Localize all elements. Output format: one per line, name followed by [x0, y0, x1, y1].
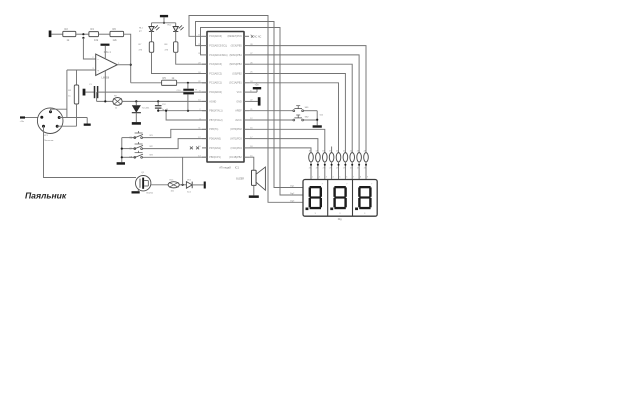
pin 22 (right row 8): [244, 100, 249, 102]
resistor R18: [323, 153, 328, 162]
wire (segment line f): [249, 129, 325, 152]
button SB2: [249, 119, 293, 121]
pin 9 (left row 7): [202, 91, 207, 93]
ground (switch common): [117, 162, 125, 165]
wire: [331, 162, 333, 180]
svg-text:(SS)PB2: (SS)PB2: [232, 72, 242, 75]
pin 27 (right row 3): [244, 54, 249, 56]
wire: [365, 162, 367, 180]
svg-text:GND: GND: [236, 100, 242, 103]
svg-text:3: 3: [326, 177, 327, 179]
node A (junction): [82, 33, 84, 35]
wire (IC pin 15 to buzzer): [249, 157, 254, 170]
pin 10 (left row 8): [202, 100, 207, 102]
wire (segment line h): [249, 148, 311, 153]
svg-text:PD5(T1): PD5(T1): [209, 128, 218, 131]
resistor R23: [357, 153, 362, 162]
svg-text:PC4(ADC4/SDA): PC4(ADC4/SDA): [209, 54, 227, 57]
LED HL1: [151, 23, 153, 27]
wire (S1 to IC pin 11): [143, 129, 208, 137]
wire to IC pin 5: [152, 52, 208, 73]
wire: [187, 94, 189, 110]
ground (TL431): [132, 122, 141, 125]
svg-text:5: 5: [339, 177, 340, 179]
svg-text:Паяльник: Паяльник: [44, 140, 53, 142]
pin 13 NC crosses (left): [190, 147, 193, 150]
svg-text:271: 271: [336, 168, 339, 170]
svg-text:7: 7: [346, 183, 347, 185]
svg-text:PC6(ADC6): PC6(ADC6): [209, 35, 222, 38]
pin 11 (left row 11): [202, 128, 207, 130]
wire (non-inverting input): [67, 69, 96, 71]
svg-text:3: 3: [339, 213, 340, 215]
svg-text:3: 3: [315, 213, 316, 215]
wire (S4 to IC pin 12): [143, 139, 208, 149]
wire: [324, 162, 326, 180]
wire (segment line e): [249, 83, 339, 153]
svg-text:PD7(AIN1): PD7(AIN1): [209, 147, 221, 150]
svg-text:R5: R5: [163, 76, 167, 80]
svg-text:BUZ11: BUZ11: [147, 193, 154, 195]
wire: [253, 185, 255, 195]
terminal X1 (thermocouple input): [49, 31, 52, 38]
pin 12 (right row 10): [244, 119, 249, 121]
svg-text:AGND: AGND: [209, 100, 216, 103]
resistor R8: [175, 32, 177, 42]
wire (top pin to +input column): [51, 109, 67, 112]
svg-text:R4: R4: [91, 27, 95, 31]
wire Dig3 (pin 20 over top to display): [201, 28, 304, 196]
svg-text:PC1(ADC1): PC1(ADC1): [209, 82, 222, 85]
ground (buttons): [313, 125, 322, 127]
digit 3 segments: [359, 186, 370, 188]
pin 12 (left row 12): [202, 138, 207, 140]
buzzer BA1: [252, 170, 257, 185]
svg-text:AVCC: AVCC: [235, 119, 242, 122]
wire: [192, 184, 204, 186]
wire (switch common): [121, 138, 123, 163]
resistor R16: [309, 153, 314, 162]
wire: [76, 33, 89, 35]
svg-text:TLC431: TLC431: [142, 108, 151, 110]
svg-text:7: 7: [353, 177, 354, 179]
wire: [122, 100, 207, 102]
resistor R17: [316, 153, 321, 162]
node F: [187, 82, 189, 84]
op-amp DA1.1: [96, 54, 118, 76]
wire: [151, 184, 168, 186]
switch S4: [122, 148, 134, 150]
svg-text:17: 17: [316, 151, 318, 153]
resistor R15: [168, 182, 179, 188]
pin 15 (right row 14): [244, 156, 249, 158]
display HG1 (3-digit 7-segment): [303, 180, 377, 217]
svg-text:BUZER: BUZER: [236, 178, 244, 180]
digit 1 decimal point: [306, 208, 309, 211]
ground (buzzer): [249, 195, 259, 198]
wire (right pin to ground): [59, 117, 87, 119]
resistor R22: [350, 153, 355, 162]
resistor R9: [113, 98, 122, 106]
wire (segment line d): [249, 74, 345, 153]
transistor Q1 (MOSFET): [136, 176, 151, 191]
resistor R24: [364, 153, 369, 162]
pin 21 (right row 9): [244, 110, 249, 112]
terminal +5V1: [204, 182, 206, 189]
svg-text:2: 2: [319, 177, 320, 179]
wire: [179, 184, 186, 186]
node D: [135, 100, 137, 102]
svg-text:(SCK)PB5: (SCK)PB5: [231, 45, 243, 48]
ground (connector): [86, 118, 88, 124]
ground (source of Q1): [137, 190, 139, 192]
node H (gate drive): [182, 184, 184, 186]
wire: [124, 34, 131, 83]
wire (IC pin 14 to gate node): [182, 157, 184, 185]
svg-text:23: 23: [357, 151, 359, 153]
wire: [152, 22, 176, 24]
svg-text:(MOSI)PB3: (MOSI)PB3: [229, 63, 242, 66]
microcontroller IC1 ATmega8: [207, 32, 244, 163]
svg-text:IC1: IC1: [235, 165, 240, 169]
wire (heater line to transistor): [44, 126, 137, 177]
svg-text:AREF: AREF: [235, 110, 242, 113]
wire: [310, 162, 312, 180]
pin 24 (left row 5): [202, 73, 207, 75]
svg-text:10k: 10k: [94, 38, 99, 42]
wire (+5v rail to IC pin 8): [96, 92, 98, 101]
wire (vertical to op-amp + input): [66, 70, 68, 118]
svg-text:7: 7: [371, 183, 372, 185]
svg-text:PB0(ICP1): PB0(ICP1): [209, 156, 221, 159]
svg-text:R6: R6: [113, 27, 117, 31]
svg-text:NC NC: NC NC: [254, 36, 262, 38]
svg-text:grn: grn: [139, 31, 142, 33]
pin 2 (left row 9): [202, 110, 207, 112]
svg-text:(INT0)PD2: (INT0)PD2: [230, 128, 242, 131]
svg-text:271: 271: [350, 168, 353, 170]
pin 17 (right row 12): [244, 138, 249, 140]
pin 18 (right row 13): [244, 147, 249, 149]
svg-text:271: 271: [309, 168, 312, 170]
wire to IC pin 4: [176, 52, 207, 64]
wire: [76, 104, 78, 126]
wire: [358, 162, 360, 180]
pin 24 (right row 6): [244, 82, 249, 84]
wire (left pin 10 step): [166, 111, 207, 120]
digit 2 decimal point: [330, 208, 333, 211]
pin 28 (right row 2): [244, 45, 249, 47]
svg-text:271: 271: [329, 168, 332, 170]
svg-text:PC5(ADC5/SCL): PC5(ADC5/SCL): [209, 45, 227, 48]
wire: [344, 162, 346, 180]
wire: [135, 113, 137, 122]
svg-text:8: 8: [360, 177, 361, 179]
svg-text:PC3(ADC3): PC3(ADC3): [209, 63, 222, 66]
svg-text:16: 16: [309, 151, 311, 153]
svg-text:Dig: Dig: [338, 218, 342, 221]
capacitor C12: [157, 101, 159, 105]
svg-text:22: 22: [350, 151, 352, 153]
connector XP1 (iron plug): [37, 108, 63, 134]
resistor R1: [76, 70, 78, 85]
wire (op-amp output): [117, 64, 130, 66]
svg-text:4: 4: [333, 177, 334, 179]
switch S1: [122, 137, 134, 139]
pin 13 (left row 13): [202, 147, 207, 149]
svg-text:3: 3: [364, 213, 365, 215]
wire (S5 to IC pin 14): [143, 156, 208, 158]
capacitor C1: [94, 86, 96, 98]
resistor R2: [63, 31, 76, 36]
V+ supply bar of op-amp: [101, 44, 110, 46]
pin 25 (right row 5): [244, 73, 249, 75]
svg-text:(OC1A)PB1: (OC1A)PB1: [229, 82, 242, 85]
svg-text:(XCK)PD4: (XCK)PD4: [231, 147, 243, 150]
terminal +24v: [20, 116, 25, 118]
pin 19 (left row 1): [202, 35, 207, 37]
node C: [104, 100, 106, 102]
node B (op-amp output junction): [130, 64, 132, 66]
wire: [25, 117, 38, 119]
svg-text:PB7(XTAL2): PB7(XTAL2): [209, 119, 222, 122]
terminal (common): [83, 89, 86, 96]
svg-text:PB6(XTAL1): PB6(XTAL1): [209, 110, 222, 113]
wire (V- stem of op-amp down to ground rail): [104, 71, 106, 102]
resistor R5: [162, 80, 177, 85]
svg-text:ATmega8: ATmega8: [219, 165, 231, 169]
wire (button common): [316, 111, 318, 126]
svg-text:271: 271: [364, 168, 367, 170]
svg-text:PC2(ADC2): PC2(ADC2): [209, 72, 222, 75]
wire with resistor R5 to IC pin 6: [131, 82, 162, 84]
wire (bottom-right pin to R1): [57, 125, 76, 127]
wire to IC pin 7: [98, 91, 207, 93]
wire: [99, 33, 111, 35]
wire: [85, 91, 94, 93]
voltage reference VD3 TL431: [135, 101, 137, 105]
wire (segment line a): [249, 46, 366, 153]
wire (segment line g): [249, 139, 318, 153]
resistor R4: [89, 32, 99, 37]
svg-text:7: 7: [322, 183, 323, 185]
svg-text:(RESET)PC6: (RESET)PC6: [227, 35, 242, 38]
digit 3 decimal point: [355, 208, 358, 211]
wire: [338, 162, 340, 180]
wire: [317, 162, 319, 180]
wire: [351, 162, 353, 180]
pin 8 (right row 7): [244, 91, 249, 93]
diode VD1: [186, 182, 192, 189]
wire: [51, 33, 62, 35]
pin 16 (right row 11): [244, 128, 249, 130]
pin 20 (left row 3): [202, 54, 207, 56]
svg-text:Паяльник: Паяльник: [25, 190, 67, 200]
svg-text:(INT1)PD3: (INT1)PD3: [230, 138, 242, 141]
svg-text:R2: R2: [65, 27, 69, 31]
pin 22 (left row 6): [202, 82, 207, 84]
svg-text:PD6(AIN0): PD6(AIN0): [209, 138, 221, 141]
svg-text:271: 271: [316, 168, 319, 170]
wire (segment line b): [249, 55, 359, 153]
pin 3 (left row 10): [202, 119, 207, 121]
svg-text:21: 21: [343, 151, 345, 153]
svg-text:18: 18: [322, 151, 324, 153]
pin 23 (left row 4): [202, 63, 207, 65]
wire Dig2 (pin 21 over top to display): [196, 22, 304, 188]
wire to IC pin 9: [158, 110, 207, 112]
svg-text:9: 9: [367, 177, 368, 179]
resistor R6: [110, 31, 124, 36]
svg-text:20: 20: [336, 151, 338, 153]
wire Dig1 (pin 19 over top to display): [189, 16, 303, 203]
wire (segment line c): [249, 64, 352, 152]
pin 21 (left row 2): [202, 45, 207, 47]
power bar (+5v for LEDs): [160, 15, 168, 17]
svg-text:12k: 12k: [113, 38, 118, 42]
resistor R7: [151, 32, 153, 42]
switch S5: [122, 156, 134, 158]
resistor R19: [329, 153, 334, 162]
svg-text:19: 19: [329, 151, 331, 153]
node E: [157, 100, 159, 102]
wire (segment stub): [331, 147, 333, 153]
svg-text:6: 6: [346, 177, 347, 179]
svg-text:VCC: VCC: [237, 91, 242, 94]
svg-text:1: 1: [312, 177, 313, 179]
svg-text:271: 271: [343, 168, 346, 170]
button SB1: [249, 110, 293, 112]
ground bar (IC GND): [249, 100, 258, 102]
wire (feedback to inverting input): [83, 38, 95, 59]
svg-text:271: 271: [357, 168, 360, 170]
digit 2 segments: [334, 186, 345, 188]
LED HL2: [175, 23, 177, 27]
svg-text:(OC1B)PB2: (OC1B)PB2: [229, 156, 242, 159]
digit 1 segments: [310, 186, 321, 188]
svg-text:24: 24: [364, 151, 366, 153]
+5v supply (IC VCC): [249, 91, 257, 93]
svg-text:(MISO)PB4: (MISO)PB4: [229, 54, 242, 57]
svg-text:PC0(ADC0): PC0(ADC0): [209, 91, 222, 94]
resistor R20: [336, 153, 341, 162]
pin 7 (right row 1): [244, 35, 249, 37]
pin 26 (right row 4): [244, 63, 249, 65]
node G: [163, 22, 165, 24]
resistor R21: [343, 153, 348, 162]
pin 14 (left row 14): [202, 156, 207, 158]
capacitor C10 (electrolytic): [187, 83, 189, 89]
svg-text:271: 271: [323, 168, 326, 170]
